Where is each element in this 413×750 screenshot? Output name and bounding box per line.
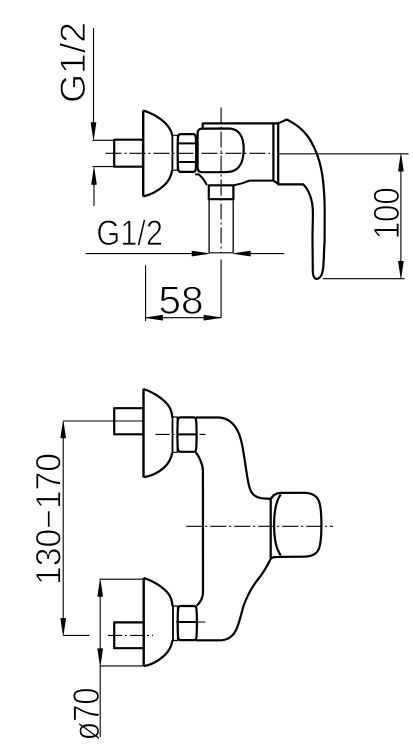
- svg-text:G1/2: G1/2: [96, 213, 162, 253]
- svg-text:ø70: ø70: [66, 688, 107, 741]
- svg-text:G1/2: G1/2: [54, 22, 93, 103]
- svg-text:130−170: 130−170: [29, 453, 69, 585]
- svg-text:100: 100: [366, 187, 407, 239]
- svg-text:58: 58: [159, 280, 204, 323]
